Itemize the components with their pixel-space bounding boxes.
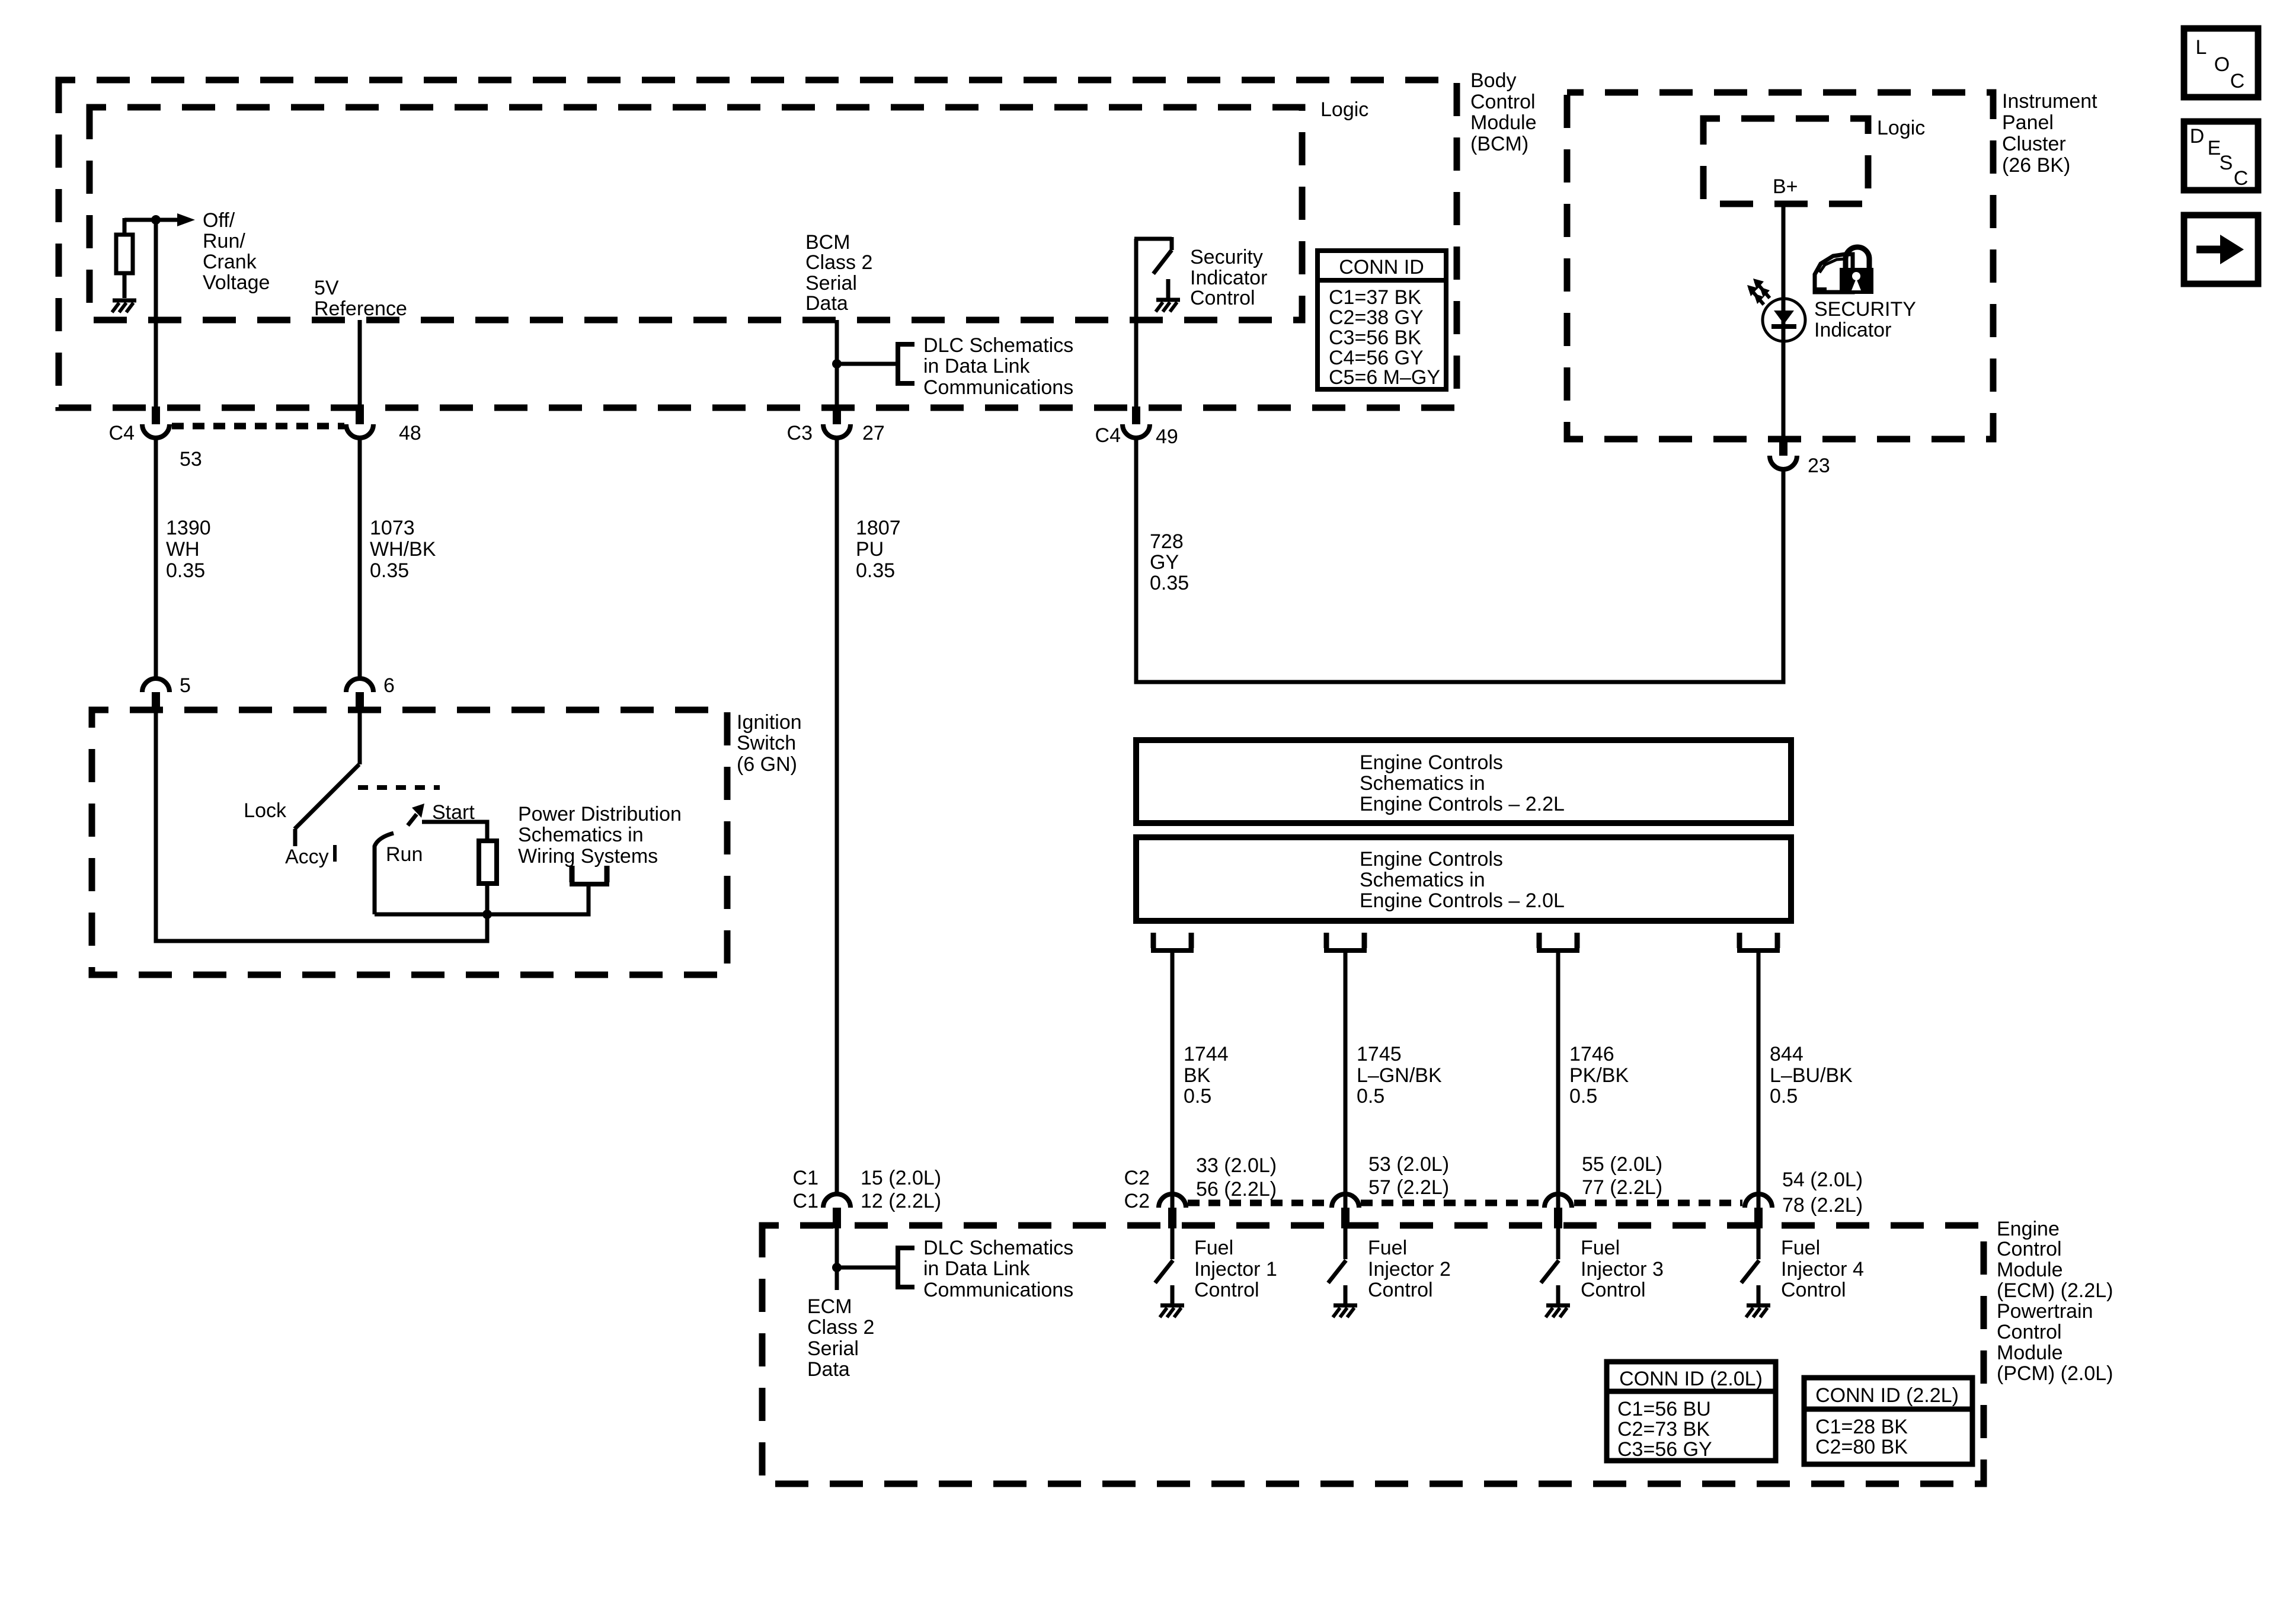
svg-text:DLC Schematics: DLC Schematics <box>923 1237 1073 1259</box>
svg-text:Body: Body <box>1470 69 1517 92</box>
svg-text:BCM: BCM <box>805 231 850 254</box>
svg-text:Class 2: Class 2 <box>805 251 872 274</box>
svg-text:Control: Control <box>1997 1321 2062 1343</box>
svg-text:C3=56 GY: C3=56 GY <box>1617 1438 1712 1461</box>
svg-text:C: C <box>2234 167 2249 190</box>
svg-text:Reference: Reference <box>314 297 407 320</box>
svg-text:GY: GY <box>1150 551 1179 574</box>
svg-text:L–BU/BK: L–BU/BK <box>1770 1064 1853 1087</box>
svg-text:in Data Link: in Data Link <box>923 1257 1031 1280</box>
svg-text:77 (2.2L): 77 (2.2L) <box>1582 1176 1662 1199</box>
svg-text:15 (2.0L): 15 (2.0L) <box>861 1167 941 1189</box>
svg-text:Engine: Engine <box>1997 1218 2060 1240</box>
svg-text:Cluster: Cluster <box>2002 133 2066 155</box>
svg-text:Data: Data <box>807 1358 850 1381</box>
svg-text:0.5: 0.5 <box>1770 1085 1798 1108</box>
svg-text:(ECM) (2.2L): (ECM) (2.2L) <box>1997 1279 2113 1302</box>
svg-text:23: 23 <box>1808 454 1830 477</box>
svg-text:CONN ID: CONN ID <box>1339 256 1424 279</box>
svg-text:Logic: Logic <box>1877 117 1925 139</box>
svg-text:0.35: 0.35 <box>856 559 895 582</box>
svg-text:PU: PU <box>856 538 884 561</box>
svg-text:C2=73 BK: C2=73 BK <box>1617 1418 1710 1441</box>
svg-text:78 (2.2L): 78 (2.2L) <box>1782 1194 1863 1217</box>
svg-text:CONN ID (2.2L): CONN ID (2.2L) <box>1815 1384 1959 1407</box>
svg-text:C1=37 BK: C1=37 BK <box>1329 286 1421 309</box>
svg-text:Fuel: Fuel <box>1781 1237 1820 1259</box>
svg-text:BK: BK <box>1184 1064 1211 1087</box>
svg-text:Run: Run <box>386 843 423 866</box>
svg-text:57 (2.2L): 57 (2.2L) <box>1368 1176 1449 1199</box>
svg-text:0.5: 0.5 <box>1569 1085 1597 1108</box>
svg-text:C5=6 M–GY: C5=6 M–GY <box>1329 366 1440 389</box>
svg-text:Wiring Systems: Wiring Systems <box>518 845 658 868</box>
svg-text:Logic: Logic <box>1320 98 1368 121</box>
svg-text:Fuel: Fuel <box>1368 1237 1407 1259</box>
svg-text:Crank: Crank <box>203 251 257 273</box>
svg-text:Switch: Switch <box>737 732 796 754</box>
svg-text:53: 53 <box>180 448 202 470</box>
svg-text:(6 GN): (6 GN) <box>737 753 797 776</box>
svg-text:(BCM): (BCM) <box>1470 133 1528 155</box>
svg-text:33 (2.0L): 33 (2.0L) <box>1196 1154 1277 1177</box>
svg-text:Off/: Off/ <box>203 209 235 232</box>
svg-text:PK/BK: PK/BK <box>1569 1064 1629 1087</box>
svg-text:Engine Controls: Engine Controls <box>1360 751 1503 774</box>
svg-text:C1: C1 <box>793 1190 818 1212</box>
svg-text:6: 6 <box>383 674 395 697</box>
svg-text:ECM: ECM <box>807 1295 852 1318</box>
svg-text:L: L <box>2196 36 2207 59</box>
svg-text:0.35: 0.35 <box>166 559 205 582</box>
svg-text:Serial: Serial <box>805 272 857 295</box>
svg-text:(26 BK): (26 BK) <box>2002 154 2070 177</box>
svg-text:1745: 1745 <box>1357 1043 1402 1065</box>
svg-text:C: C <box>2230 70 2245 92</box>
svg-text:Module: Module <box>1997 1259 2063 1281</box>
svg-text:Injector 2: Injector 2 <box>1368 1258 1451 1281</box>
svg-text:CONN ID (2.0L): CONN ID (2.0L) <box>1619 1368 1763 1390</box>
svg-text:Schematics in: Schematics in <box>1360 869 1485 891</box>
svg-text:DLC Schematics: DLC Schematics <box>923 334 1073 357</box>
svg-text:1390: 1390 <box>166 517 211 539</box>
svg-text:C2: C2 <box>1124 1167 1150 1189</box>
svg-text:Engine Controls – 2.0L: Engine Controls – 2.0L <box>1360 889 1565 912</box>
svg-text:844: 844 <box>1770 1043 1803 1065</box>
svg-text:Start: Start <box>432 801 475 824</box>
svg-text:SECURITY: SECURITY <box>1814 298 1916 321</box>
svg-text:C4: C4 <box>109 422 135 444</box>
svg-text:S: S <box>2220 152 2233 174</box>
svg-text:C2=80 BK: C2=80 BK <box>1815 1436 1908 1458</box>
svg-text:0.35: 0.35 <box>370 559 409 582</box>
svg-text:C4: C4 <box>1095 424 1121 447</box>
svg-text:Data: Data <box>805 292 848 315</box>
svg-text:Run/: Run/ <box>203 230 245 252</box>
svg-text:0.35: 0.35 <box>1150 572 1189 594</box>
svg-text:56 (2.2L): 56 (2.2L) <box>1196 1178 1277 1201</box>
svg-text:Security: Security <box>1190 246 1263 268</box>
svg-text:Control: Control <box>1368 1279 1433 1301</box>
svg-text:Indicator: Indicator <box>1814 319 1891 341</box>
svg-text:Injector 1: Injector 1 <box>1194 1258 1277 1281</box>
svg-text:Serial: Serial <box>807 1337 859 1360</box>
svg-text:53 (2.0L): 53 (2.0L) <box>1368 1153 1449 1176</box>
svg-text:Control: Control <box>1194 1279 1259 1301</box>
svg-text:Engine Controls – 2.2L: Engine Controls – 2.2L <box>1360 793 1565 815</box>
svg-text:Injector 4: Injector 4 <box>1781 1258 1864 1281</box>
svg-text:5: 5 <box>180 674 191 697</box>
svg-text:C3=56 BK: C3=56 BK <box>1329 327 1421 349</box>
svg-text:C3: C3 <box>787 422 813 444</box>
svg-text:55 (2.0L): 55 (2.0L) <box>1582 1153 1662 1176</box>
svg-text:Communications: Communications <box>923 1279 1073 1301</box>
svg-text:Control: Control <box>1581 1279 1646 1301</box>
svg-text:Module: Module <box>1997 1342 2063 1364</box>
svg-text:in Data Link: in Data Link <box>923 355 1031 377</box>
svg-text:Fuel: Fuel <box>1194 1237 1233 1259</box>
svg-text:1746: 1746 <box>1569 1043 1614 1065</box>
svg-text:C1: C1 <box>793 1167 818 1189</box>
svg-text:Control: Control <box>1470 91 1536 113</box>
svg-text:Control: Control <box>1997 1238 2062 1260</box>
svg-text:WH/BK: WH/BK <box>370 538 436 561</box>
svg-text:Control: Control <box>1190 287 1255 309</box>
svg-text:Lock: Lock <box>244 799 287 822</box>
svg-text:Accy: Accy <box>285 846 329 868</box>
svg-text:Class 2: Class 2 <box>807 1316 874 1339</box>
svg-text:C1=28 BK: C1=28 BK <box>1815 1416 1908 1438</box>
svg-text:WH: WH <box>166 538 200 561</box>
svg-text:1807: 1807 <box>856 517 901 539</box>
svg-text:Fuel: Fuel <box>1581 1237 1620 1259</box>
svg-text:Voltage: Voltage <box>203 271 270 294</box>
svg-text:(PCM) (2.0L): (PCM) (2.0L) <box>1997 1362 2113 1385</box>
svg-text:5V: 5V <box>314 277 339 299</box>
svg-text:C2: C2 <box>1124 1190 1150 1212</box>
svg-text:12 (2.2L): 12 (2.2L) <box>861 1190 941 1212</box>
svg-text:0.5: 0.5 <box>1357 1085 1384 1108</box>
svg-text:Communications: Communications <box>923 376 1073 399</box>
svg-text:L–GN/BK: L–GN/BK <box>1357 1064 1442 1087</box>
svg-text:Injector 3: Injector 3 <box>1581 1258 1664 1281</box>
svg-text:C2=38 GY: C2=38 GY <box>1329 306 1424 329</box>
svg-text:0.5: 0.5 <box>1184 1085 1211 1108</box>
svg-text:Ignition: Ignition <box>737 711 802 734</box>
svg-text:Power Distribution: Power Distribution <box>518 803 682 825</box>
svg-text:49: 49 <box>1156 425 1178 448</box>
svg-text:27: 27 <box>862 422 885 444</box>
svg-text:Panel: Panel <box>2002 111 2054 134</box>
svg-text:Indicator: Indicator <box>1190 267 1267 289</box>
svg-text:1073: 1073 <box>370 517 415 539</box>
svg-text:Module: Module <box>1470 111 1537 134</box>
svg-text:B+: B+ <box>1773 175 1798 198</box>
svg-text:728: 728 <box>1150 530 1184 553</box>
svg-text:Schematics in: Schematics in <box>1360 772 1485 795</box>
svg-text:D: D <box>2190 125 2205 148</box>
svg-text:O: O <box>2214 53 2230 76</box>
svg-text:Engine Controls: Engine Controls <box>1360 848 1503 870</box>
svg-text:Schematics in: Schematics in <box>518 824 644 846</box>
svg-text:54 (2.0L): 54 (2.0L) <box>1782 1169 1863 1191</box>
svg-text:Control: Control <box>1781 1279 1846 1301</box>
svg-text:48: 48 <box>399 422 421 444</box>
svg-text:Powertrain: Powertrain <box>1997 1300 2093 1323</box>
svg-text:C1=56 BU: C1=56 BU <box>1617 1398 1711 1420</box>
svg-text:Instrument: Instrument <box>2002 90 2097 113</box>
svg-text:1744: 1744 <box>1184 1043 1229 1065</box>
